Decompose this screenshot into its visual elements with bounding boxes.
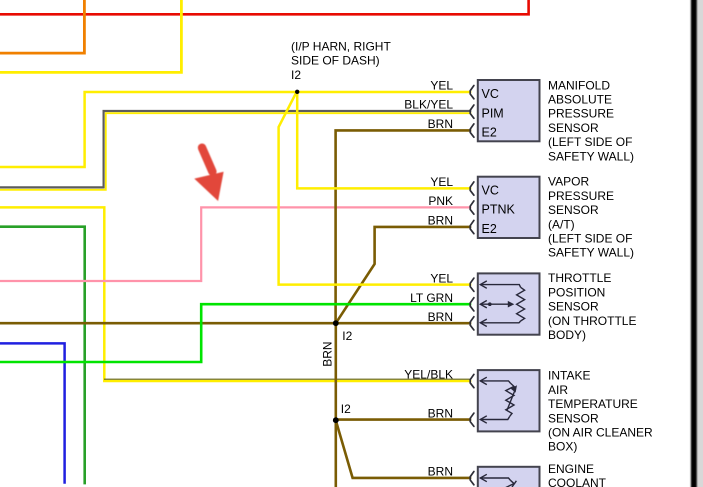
svg-text:E2: E2	[482, 125, 497, 139]
wire GRN dark green left	[0, 227, 85, 485]
page edge black bar	[691, 0, 697, 487]
svg-text:PTNK: PTNK	[482, 203, 516, 217]
svg-text:YEL: YEL	[430, 79, 453, 93]
sensor box TPS	[478, 273, 540, 334]
TPS wiper arrowhead	[508, 301, 515, 308]
wire BRN vertical below node I2	[334, 323, 337, 487]
wire BLK/YEL to MAP sensor PIM (black conductor)	[0, 111, 471, 187]
wire LT GRN to TPS	[0, 304, 471, 362]
svg-text:YEL: YEL	[430, 175, 453, 189]
component name throttle position sensor	[548, 271, 636, 342]
component name engine coolant sensor (clipped)	[548, 462, 607, 487]
svg-text:BRN: BRN	[428, 117, 453, 131]
svg-text:AIR: AIR	[548, 383, 568, 397]
svg-text:POSITION: POSITION	[548, 285, 605, 299]
svg-text:SENSOR: SENSOR	[548, 300, 599, 314]
label I/P harness callout	[291, 39, 391, 82]
wire BRN to ECT sensor	[336, 420, 472, 478]
svg-text:PIM: PIM	[482, 106, 504, 120]
component name MAP sensor	[548, 78, 634, 163]
svg-text:BRN: BRN	[428, 214, 453, 228]
svg-text:SAFETY WALL): SAFETY WALL)	[548, 246, 634, 260]
wire ORN upper left	[0, 0, 84, 53]
component name vapor pressure sensor	[548, 175, 634, 260]
wire BLU lower left	[0, 343, 65, 483]
pin ground of IAT	[470, 413, 474, 426]
wire BRN to IAT sensor	[336, 418, 472, 421]
svg-text:INTAKE: INTAKE	[548, 369, 590, 383]
svg-text:(I/P HARN, RIGHT: (I/P HARN, RIGHT	[291, 39, 391, 53]
svg-text:THROTTLE: THROTTLE	[548, 271, 611, 285]
svg-text:ENGINE: ENGINE	[548, 462, 594, 476]
svg-text:SENSOR: SENSOR	[548, 411, 599, 425]
node I2 top junction dot	[295, 90, 299, 94]
wire YEL/BLK black tracer stripe	[104, 378, 471, 380]
svg-text:I2: I2	[291, 68, 301, 82]
wire BRN MAP sensor E2 branch	[336, 130, 472, 323]
svg-text:BRN: BRN	[428, 406, 453, 420]
node I2 BRN junction dot	[333, 320, 339, 326]
scrollbar gray strip	[696, 0, 703, 487]
svg-text:(LEFT SIDE OF: (LEFT SIDE OF	[548, 135, 632, 149]
svg-text:BRN: BRN	[321, 341, 335, 366]
svg-text:SAFETY WALL): SAFETY WALL)	[548, 149, 634, 163]
svg-text:I2: I2	[342, 329, 352, 343]
svg-text:PNK: PNK	[428, 194, 453, 208]
wire YEL upper left loop	[0, 0, 181, 72]
wire YEL node I2 to vapor sensor VC	[297, 92, 471, 189]
svg-text:(LEFT SIDE OF: (LEFT SIDE OF	[548, 232, 632, 246]
TPS wiper junction dot	[488, 302, 492, 306]
svg-text:BODY): BODY)	[548, 328, 586, 342]
svg-text:MANIFOLD: MANIFOLD	[548, 78, 610, 92]
sensor box MAP	[478, 80, 540, 141]
sensor box vapor pressure	[478, 177, 540, 238]
wire YEL node I2 to TPS VC	[279, 93, 472, 285]
svg-text:ABSOLUTE: ABSOLUTE	[548, 93, 612, 107]
svg-text:COOLANT: COOLANT	[548, 476, 607, 487]
svg-text:SIDE OF DASH): SIDE OF DASH)	[291, 54, 380, 68]
svg-text:YEL: YEL	[430, 271, 453, 285]
svg-text:TEMPERATURE: TEMPERATURE	[548, 397, 638, 411]
svg-text:SENSOR: SENSOR	[548, 121, 599, 135]
thermistor inside IAT	[480, 377, 515, 423]
node I2 lower BRN junction dot	[333, 417, 339, 423]
sensor box ECT (clipped at bottom)	[478, 467, 540, 487]
pin signal of IAT	[470, 374, 474, 387]
svg-text:BRN: BRN	[428, 310, 453, 324]
wire PNK to vapor sensor PTNK	[0, 207, 471, 281]
svg-text:BLK/YEL: BLK/YEL	[404, 98, 453, 112]
svg-text:I2: I2	[341, 402, 351, 416]
pin VC of MAP	[470, 86, 474, 99]
pin PIM of MAP	[470, 105, 474, 118]
component name intake air temperature sensor	[548, 369, 653, 454]
svg-text:PRESSURE: PRESSURE	[548, 189, 614, 203]
red annotation arrow	[194, 148, 223, 201]
sensor box IAT	[478, 370, 540, 431]
svg-text:BRN: BRN	[428, 465, 453, 479]
potentiometer inside TPS	[480, 281, 524, 327]
pin E2 of vapor sensor	[470, 220, 474, 233]
wire BRN ground bus to TPS E2	[0, 322, 471, 325]
thermistor inside ECT (partial)	[480, 474, 516, 487]
svg-text:E2: E2	[482, 222, 497, 236]
wire YEL/BLK to IAT sensor	[0, 207, 471, 381]
pin E2 of TPS	[470, 317, 474, 330]
svg-text:YEL/BLK: YEL/BLK	[404, 368, 453, 382]
svg-text:LT GRN: LT GRN	[410, 291, 453, 305]
wire YEL to MAP sensor VC via node I2	[0, 92, 471, 167]
svg-text:VC: VC	[482, 183, 499, 197]
wire BRN vapor sensor E2 branch	[336, 227, 472, 323]
wire BLK/YEL yellow tracer stripe	[0, 113, 471, 190]
svg-text:BOX): BOX)	[548, 440, 577, 454]
pin signal of TPS	[470, 298, 474, 311]
pin VC of TPS	[470, 278, 474, 291]
svg-text:(A/T): (A/T)	[548, 217, 575, 231]
svg-text:VAPOR: VAPOR	[548, 175, 589, 189]
svg-text:(ON AIR CLEANER: (ON AIR CLEANER	[548, 426, 653, 440]
pin VC of vapor sensor	[470, 182, 474, 195]
svg-text:PRESSURE: PRESSURE	[548, 107, 614, 121]
IAT thermistor arrowhead	[511, 385, 517, 392]
pin signal of ECT	[470, 472, 474, 485]
svg-text:(ON THROTTLE: (ON THROTTLE	[548, 314, 636, 328]
pin PTNK of vapor sensor	[470, 201, 474, 214]
wire RED top bus	[0, 0, 529, 14]
svg-text:VC: VC	[482, 87, 499, 101]
svg-text:SENSOR: SENSOR	[548, 203, 599, 217]
pin E2 of MAP	[470, 124, 474, 137]
